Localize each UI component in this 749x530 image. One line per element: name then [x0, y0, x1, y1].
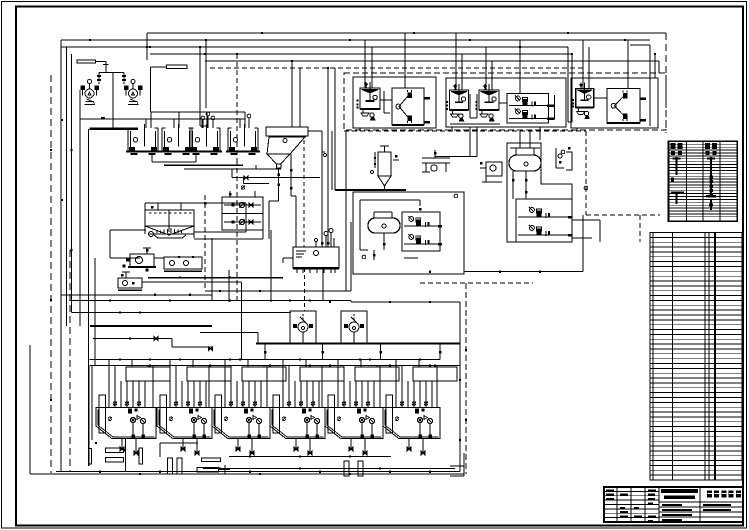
wire left low v — [29, 345, 31, 474]
wire MT bottom step 1 — [152, 154, 196, 162]
title block — [604, 487, 743, 522]
wire MT bottom step 2 — [164, 164, 243, 166]
wire dashed mid h — [344, 130, 586, 132]
table right-long parts list — [650, 233, 742, 481]
wire left bus 4 — [79, 90, 81, 326]
junction ticks — [50, 32, 656, 475]
tank B4 bar — [197, 465, 230, 474]
tank B3 bar — [201, 458, 220, 462]
centrifuge CF2 — [607, 89, 646, 124]
wire right bus h — [630, 44, 650, 46]
wire CL1 out — [145, 202, 246, 232]
wire mid thick — [256, 343, 460, 345]
mixing tank MT3 — [188, 124, 222, 155]
wire mid v5 — [228, 270, 230, 302]
dashed box PB1 — [344, 73, 666, 130]
filter unit F3 — [212, 360, 286, 456]
clarifier CL1 — [145, 210, 194, 238]
unit C2 — [422, 150, 450, 172]
tank V2 bar — [167, 65, 188, 69]
wire mid v8 — [459, 302, 461, 472]
pump P3 — [290, 311, 316, 344]
wire left bus 3 — [71, 54, 73, 313]
riser circles — [201, 112, 251, 128]
wire top bus 1 — [147, 32, 666, 34]
tank T4 — [572, 83, 594, 119]
wire top bus 4 — [150, 53, 572, 55]
wire drop e — [291, 61, 293, 127]
wire drop q — [303, 140, 306, 311]
wire drop h — [365, 40, 372, 88]
wire filter bus 2 — [90, 365, 460, 367]
filter unit F5 — [325, 360, 399, 456]
mixing tank MT1 — [126, 124, 160, 155]
wire mid h1 — [148, 277, 283, 279]
wire pump manifold — [90, 72, 138, 128]
wire bottom h2 — [56, 471, 460, 473]
pump box K2 — [164, 256, 202, 271]
wire mid v6 — [241, 282, 243, 360]
wire drop g — [404, 33, 406, 88]
wire hopper down — [269, 154, 296, 247]
wire bottom h3 — [30, 473, 464, 475]
wire left bus 2 — [66, 47, 68, 326]
wire mid h5 — [72, 312, 292, 314]
dashed unit frame — [586, 131, 660, 242]
centrifuge CF1 — [392, 88, 430, 125]
wire T5 links — [283, 229, 333, 301]
wire drop n — [627, 40, 629, 89]
L unit outline — [507, 143, 572, 242]
wire left bus 7 — [69, 250, 71, 472]
wire left bus 6 — [94, 258, 96, 366]
unit box U2 — [446, 78, 566, 127]
wire mid v0 — [200, 333, 258, 344]
wire mid drops — [264, 344, 442, 360]
wire left bus 1 — [60, 40, 62, 472]
wire mid h6 — [90, 325, 212, 327]
unit K5 — [556, 147, 572, 170]
wire U3 — [594, 97, 607, 99]
standpipes B2b — [344, 461, 363, 476]
wire left dashed bus — [50, 75, 52, 473]
wire bottom v4 — [125, 439, 127, 472]
pump P2 — [124, 80, 143, 105]
unit box U3 — [571, 78, 658, 128]
wire mid v4 — [270, 230, 272, 302]
wire U2 pipes — [435, 94, 500, 157]
wire MT pipe tops — [80, 112, 245, 119]
wire right bus v1 — [649, 45, 651, 126]
drum D1 — [368, 212, 400, 233]
wire drop d — [236, 54, 238, 160]
wire D2 inner — [512, 150, 588, 199]
wire bottom v5 — [160, 443, 198, 457]
wire top bus 5 — [205, 61, 659, 73]
pump P4 — [341, 311, 367, 344]
tank B1 bars — [106, 448, 124, 462]
pump P1 — [80, 80, 99, 105]
wire mid h2 — [142, 281, 241, 283]
wire top bus 3 — [61, 46, 568, 48]
tank T5 — [293, 239, 339, 274]
wire right dogleg — [420, 215, 583, 283]
wire top bus 6 — [210, 67, 586, 69]
wire U1 — [380, 91, 392, 113]
wire mid h3b — [61, 294, 212, 296]
wire drop m — [583, 40, 589, 89]
hopper body — [267, 137, 305, 164]
wire drop i — [456, 33, 462, 90]
wire drop o — [654, 54, 656, 78]
filter unit F6 — [383, 360, 457, 456]
wire K area — [110, 230, 146, 258]
pump unit K1 — [123, 248, 165, 272]
filter unit F1 — [96, 360, 170, 456]
wire right bus v2 — [665, 33, 667, 133]
wire mid h7 — [93, 336, 213, 351]
wire drop c — [205, 40, 207, 108]
hopper circle — [283, 139, 287, 143]
pump box PB2 — [507, 93, 551, 123]
unit box U1 — [353, 77, 436, 128]
pump box DP2 — [516, 199, 572, 242]
wire bottom h4 — [450, 453, 464, 476]
wire D2 out — [572, 220, 600, 242]
standpipe B1a — [88, 448, 142, 464]
filter unit F4 — [270, 360, 344, 456]
wire mid v9 — [465, 283, 467, 474]
wire filter left pair — [89, 366, 92, 466]
wire drop f — [299, 68, 301, 127]
wire mid v1 — [204, 195, 206, 291]
mixing tank MT2 — [160, 124, 194, 155]
wire filter drain 1 — [229, 456, 391, 458]
wire MT risers — [146, 112, 245, 128]
wire drop j — [486, 47, 492, 90]
pump stand K4 — [480, 162, 502, 182]
wire V2 drop — [151, 67, 167, 112]
tank T2 — [446, 84, 469, 121]
wire top bus 2 — [61, 39, 650, 41]
wire MT bottom step 5 — [241, 175, 269, 189]
hopper side pipe — [308, 131, 327, 157]
filter unit F2 — [157, 360, 231, 456]
pump pair unit K6 — [194, 191, 263, 239]
wire P1 riser — [97, 72, 101, 85]
wire DB1 inner — [360, 194, 458, 259]
unit box DB1 — [353, 192, 464, 274]
wire drop a — [146, 33, 148, 60]
wire V1 to P1 — [96, 62, 109, 73]
wire drop l — [568, 47, 572, 122]
wire filter drain 2 — [203, 468, 455, 470]
hopper neck — [277, 164, 282, 201]
wire mid h3 — [205, 290, 351, 292]
wire filter bus 1 — [90, 359, 440, 361]
wire box bottom links — [360, 127, 577, 140]
tank V1 bar — [77, 60, 96, 63]
wire mid h4 — [70, 301, 460, 303]
tank T3 — [476, 84, 500, 121]
standpipes B2 — [167, 458, 182, 474]
small unit K3 — [118, 272, 142, 290]
wire mid v7 — [346, 131, 351, 291]
wire mid v2 — [211, 238, 213, 301]
mixing tank MT4 — [226, 124, 260, 155]
wire MT bottom step 4 — [232, 169, 320, 178]
wire mid v3 — [236, 160, 238, 301]
wire MT bottom step 3 — [184, 165, 281, 169]
wire drop p — [322, 68, 334, 247]
hopper rim — [266, 127, 308, 136]
drum D2 — [509, 131, 541, 171]
wire left bus 5 — [88, 129, 90, 466]
pump box DP1 — [402, 212, 442, 251]
wire D1 drops — [373, 250, 418, 260]
table right-upper — [669, 141, 738, 221]
wire U2 — [499, 95, 555, 120]
tank T1 — [357, 82, 381, 120]
wire P2 riser — [122, 72, 126, 85]
wire drop b — [200, 47, 207, 126]
vessel C1 — [332, 68, 406, 190]
wire drop k — [519, 40, 521, 93]
